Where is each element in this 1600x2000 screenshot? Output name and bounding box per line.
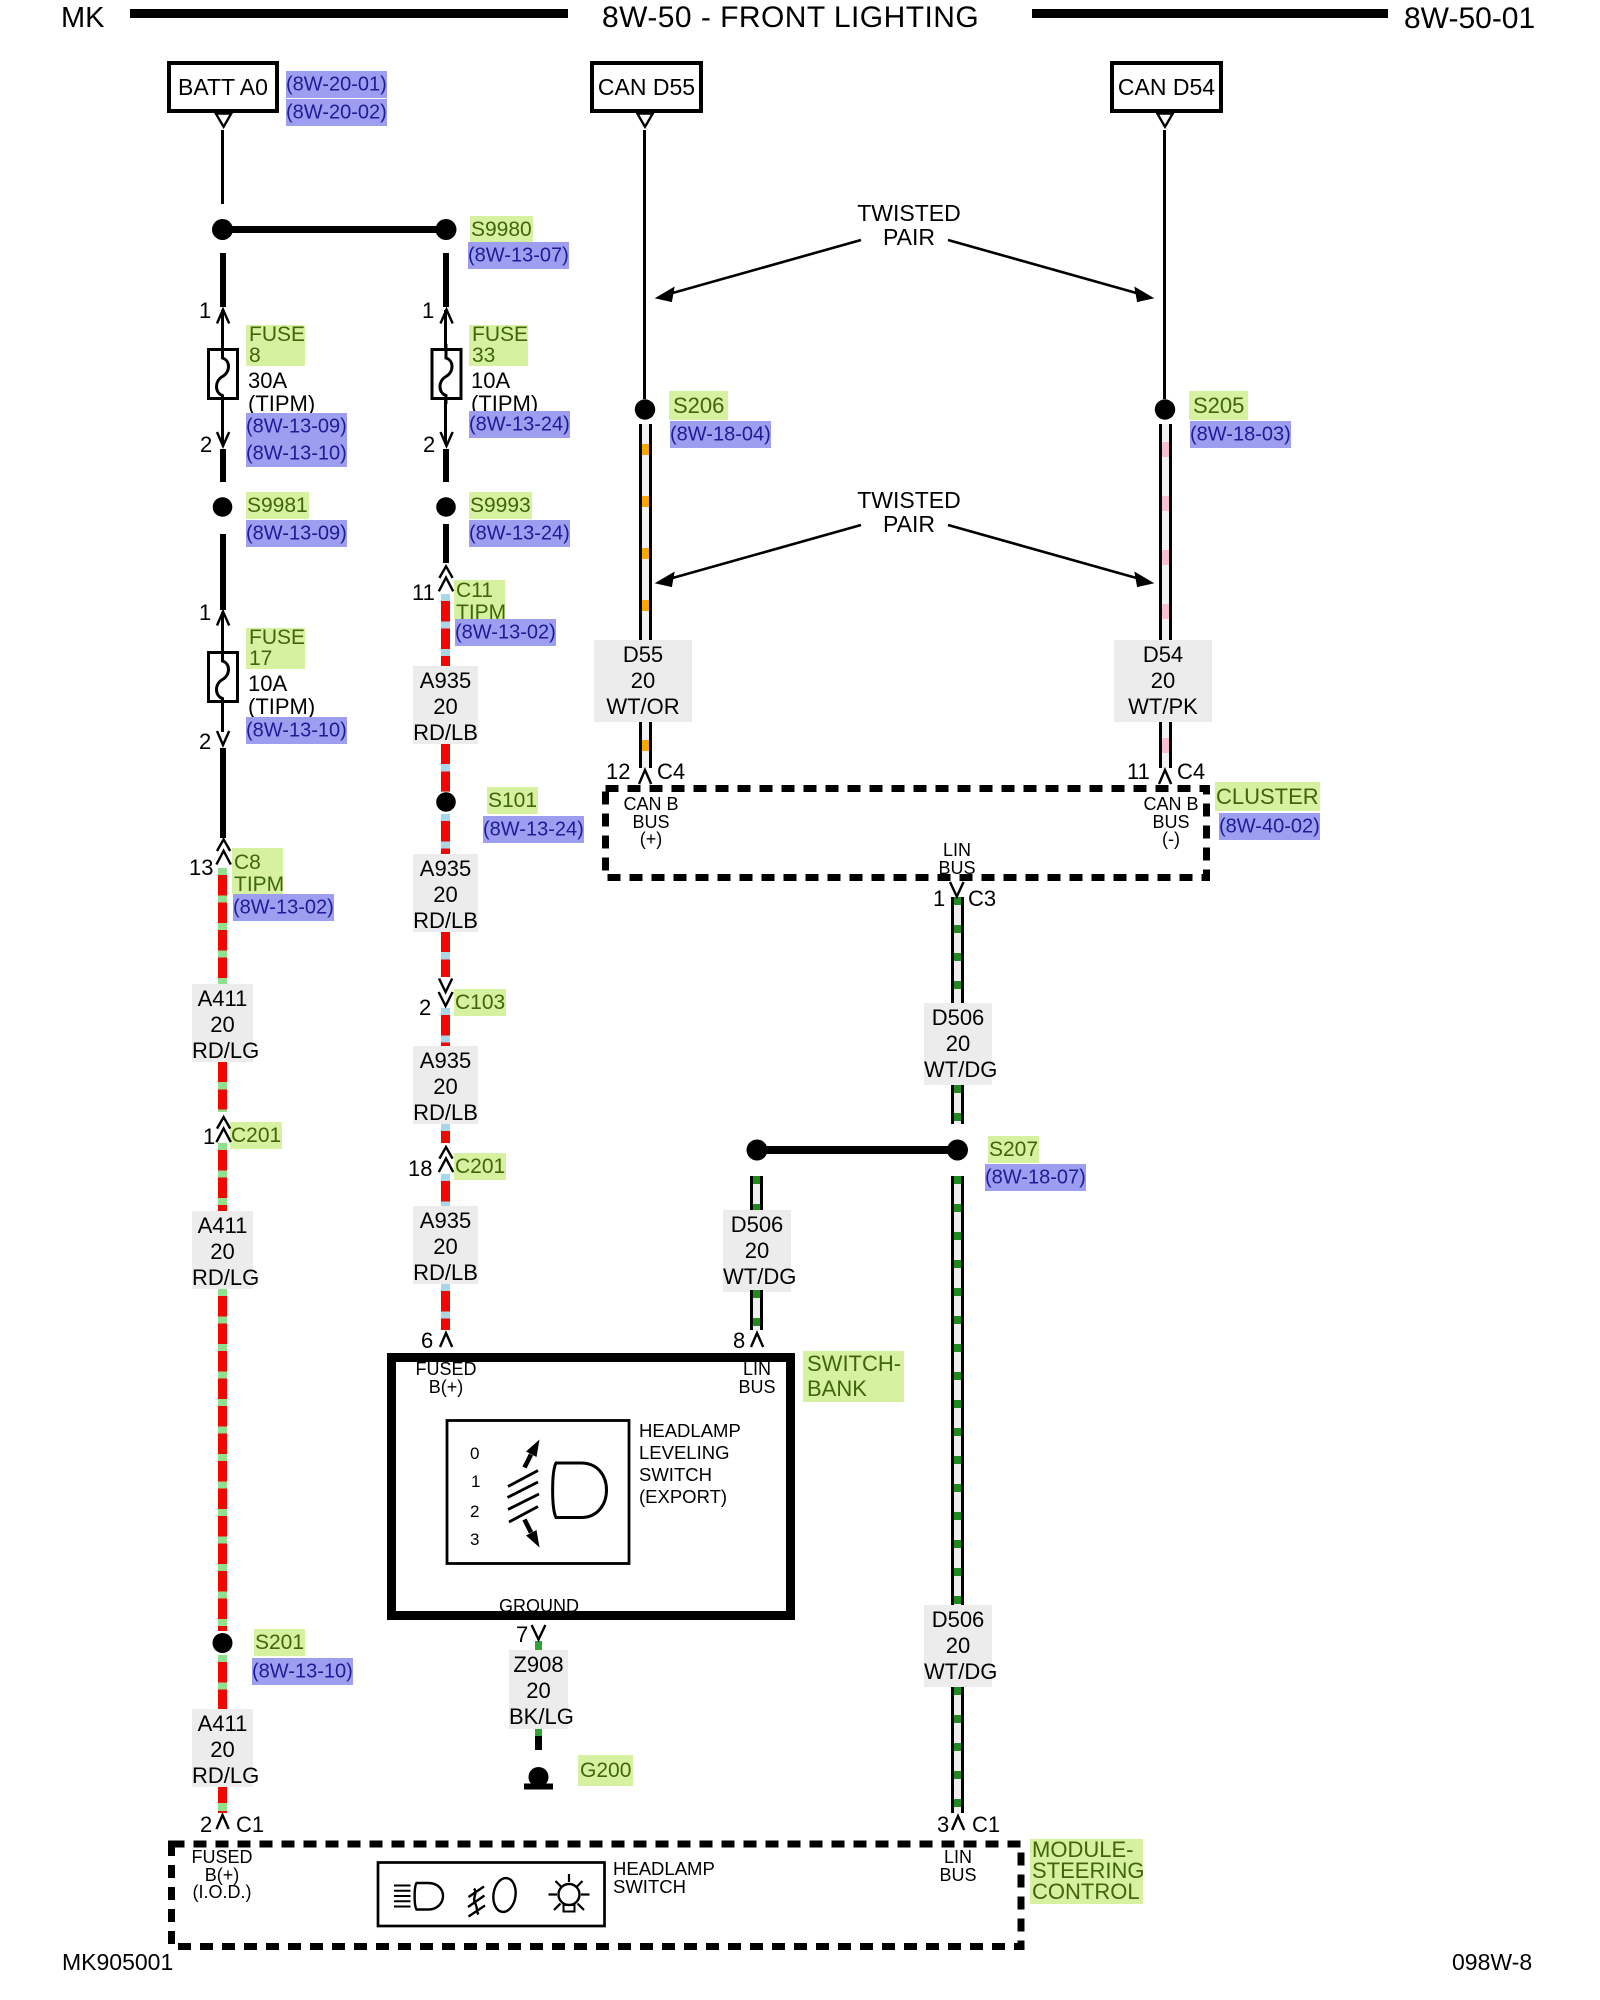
label C103 bbox=[454, 991, 506, 1015]
wire batt to splice S9980 bbox=[221, 130, 224, 204]
header page number bbox=[1404, 1, 1535, 36]
wire A411 seg6 bbox=[218, 1787, 227, 1813]
page ref (8W-18-07) bbox=[985, 1164, 1086, 1192]
splice dot S207 left bbox=[747, 1140, 768, 1161]
page ref (8W-13-09)(8W-13-10) bbox=[246, 413, 347, 468]
pin 1 fuse 17 bbox=[199, 600, 211, 626]
splice dot S201 bbox=[213, 1633, 233, 1653]
pin chevron 7 ground down bbox=[532, 1625, 546, 1640]
wire lin right long bbox=[951, 1176, 964, 1605]
label FUSED B(+) (I.O.D.) bbox=[187, 1849, 257, 1902]
splice bar S9980 bbox=[222, 226, 446, 233]
icon low beam lamp bbox=[415, 1883, 443, 1910]
page ref (8W-13-24) s101 bbox=[483, 816, 584, 844]
headlamp switch dashed box bbox=[172, 1844, 1022, 1947]
leveling up arrow bbox=[525, 1455, 532, 1468]
splice dot S101 bbox=[436, 792, 456, 812]
label LIN BUS switchbank bbox=[722, 1361, 792, 1396]
fuse 17 element bbox=[217, 647, 229, 707]
pin 6 switch bank bbox=[421, 1328, 433, 1354]
footer drawing number bbox=[1452, 1949, 1532, 1976]
icon fog squiggle bbox=[474, 1889, 479, 1915]
label S9980 bbox=[470, 218, 533, 242]
wire A935 seg7 bbox=[441, 1174, 450, 1206]
switch bank box bbox=[392, 1358, 791, 1616]
fuse 8 element bbox=[217, 344, 229, 404]
wire A411 seg3 bbox=[218, 1143, 227, 1211]
wire label A411 20 RD/LG third bbox=[192, 1709, 253, 1787]
wire label A935 20 RD/LB second bbox=[413, 854, 478, 932]
pin 13 connector C8 bbox=[189, 855, 213, 881]
label S207 bbox=[988, 1138, 1039, 1162]
label C3 bbox=[968, 886, 996, 912]
pin 2 connector C103 bbox=[419, 995, 431, 1021]
twisted pair arrow upper right bbox=[948, 240, 1140, 294]
connector box CAN D54 bbox=[1110, 61, 1223, 113]
label S101 bbox=[487, 789, 538, 813]
label C1 right bbox=[972, 1812, 1000, 1838]
label HEADLAMP SWITCH bbox=[613, 1860, 715, 1896]
twisted pair label upper bbox=[856, 201, 962, 249]
wire fuse33 to pin 2 bbox=[444, 398, 447, 444]
twisted pair arrow lower left bbox=[669, 525, 861, 579]
wire z908 upper cap bbox=[535, 1641, 542, 1650]
wire pin2 to splice S9981 bbox=[220, 449, 226, 482]
splice dot S205 bbox=[1155, 399, 1175, 419]
pin 12 connector C4 bbox=[606, 759, 630, 785]
fuse 8 body bbox=[209, 350, 238, 399]
pin 1 connector C3 bbox=[933, 886, 945, 912]
connector triangle can d54 bbox=[1157, 114, 1173, 127]
label C4 left bbox=[657, 759, 685, 785]
label S201 bbox=[254, 1631, 305, 1655]
label C11 TIPM bbox=[454, 580, 505, 620]
label C201 col1 bbox=[230, 1124, 282, 1148]
leveling down arrow bbox=[525, 1520, 532, 1533]
splice dot S9981 bbox=[213, 497, 233, 517]
wire A411 seg5 bbox=[218, 1655, 227, 1709]
pin 18 connector C201 bbox=[408, 1156, 432, 1182]
twisted pair arrowhead upper left bbox=[656, 288, 674, 302]
page ref (8W-13-09) bbox=[246, 520, 347, 548]
pin chevron 18 C201 double bbox=[439, 1147, 453, 1172]
pin chevron 3 C1 bbox=[952, 1816, 964, 1830]
leveling up arrowhead bbox=[526, 1440, 540, 1458]
wire A935 seg3 bbox=[441, 814, 450, 854]
wire pin2 fuse17 down bbox=[220, 748, 226, 838]
wire through fuse 8 bbox=[221, 310, 224, 350]
page ref (8W-13-02) c8 bbox=[233, 895, 334, 923]
wire lin bus upper bbox=[951, 897, 964, 1003]
splice bar S207 bbox=[756, 1146, 958, 1154]
label S206 bbox=[669, 393, 728, 419]
header rule left bbox=[130, 9, 568, 18]
splice dot S9993 bbox=[436, 497, 456, 517]
leveling beam lines bbox=[508, 1471, 540, 1523]
leveling down arrowhead bbox=[526, 1530, 540, 1548]
pin 2 fuse 17 bbox=[199, 729, 211, 755]
header title center bbox=[602, 0, 979, 35]
page ref (8W-13-02) c11 bbox=[455, 619, 556, 647]
page ref (8W-20-01)(8W-20-02) bbox=[286, 72, 387, 127]
wire twisted pair WT/OR upper bbox=[639, 424, 652, 640]
pin chevron 6 switchbank bbox=[440, 1333, 452, 1347]
connector box CAN D55 bbox=[590, 61, 703, 113]
ground symbol G200 dot bbox=[529, 1767, 549, 1787]
label S205 bbox=[1189, 393, 1248, 419]
icon park lamp circle bbox=[559, 1884, 580, 1905]
pin chevron 2 fuse8 bbox=[217, 432, 229, 446]
fuse 17 body bbox=[209, 653, 238, 702]
icon fog lamp bbox=[491, 1877, 518, 1914]
twisted pair arrowhead upper right bbox=[1135, 288, 1153, 302]
wire twisted pair WT/PK lower bbox=[1159, 722, 1172, 768]
pin chevron 2 C103 double down bbox=[439, 979, 453, 1007]
pin 3 connector C1 bbox=[937, 1812, 949, 1838]
label CAN B BUS (+) bbox=[615, 796, 687, 849]
svg-text:1: 1 bbox=[471, 1472, 480, 1491]
label C8 TIPM bbox=[232, 848, 283, 894]
page ref (8W-13-07) bbox=[468, 242, 569, 270]
wire lin branch to switchbank bbox=[750, 1176, 763, 1210]
page ref (8W-13-10) bbox=[246, 717, 347, 745]
leveling switch inner box bbox=[447, 1421, 629, 1564]
splice dot S9980 left bbox=[212, 219, 233, 240]
pin chevron 2 fuse17 bbox=[217, 731, 229, 745]
icon park lamp base bbox=[564, 1905, 575, 1912]
pin 2 fuse 33 bbox=[423, 432, 435, 458]
cluster dashed box bbox=[606, 789, 1207, 878]
page ref (8W-13-24) s9993 bbox=[469, 520, 570, 548]
label G200 bbox=[578, 1759, 633, 1783]
wire lin branch lower bbox=[750, 1290, 763, 1330]
wire through fuse 17 bbox=[221, 612, 224, 732]
label LIN BUS module bbox=[923, 1849, 993, 1884]
wire label D506 20 WT/DG first bbox=[924, 1003, 992, 1085]
wire can d55 down bbox=[643, 130, 646, 399]
pin chevron 8 switchbank bbox=[751, 1333, 763, 1347]
wire label A411 20 RD/LG bbox=[192, 984, 253, 1062]
wire label Z908 20 BK/LG bbox=[509, 1650, 568, 1729]
label CAN B BUS (-) bbox=[1135, 796, 1207, 849]
label LIN BUS cluster bbox=[922, 842, 992, 877]
wire A935 seg8 bbox=[441, 1284, 450, 1330]
label 10A (TIPM) fuse33 bbox=[471, 369, 538, 415]
label FUSE 17 bbox=[246, 628, 305, 669]
footer sheet code bbox=[62, 1949, 173, 1976]
wire lin to module bbox=[951, 1687, 964, 1813]
page ref (8W-18-04) bbox=[670, 421, 771, 449]
wire label D55 20 WT/OR bbox=[594, 640, 692, 722]
label SWITCH-BANK bbox=[803, 1351, 904, 1402]
pin 7 ground bbox=[516, 1622, 528, 1648]
label HEADLAMP LEVELING SWITCH (EXPORT) bbox=[639, 1420, 741, 1508]
twisted pair arrow lower right bbox=[948, 525, 1140, 579]
label C4 right bbox=[1177, 759, 1205, 785]
splice dot S207 right bbox=[947, 1140, 968, 1161]
pin 1 fuse 8 bbox=[199, 298, 211, 324]
wire A411 seg4 long bbox=[218, 1289, 227, 1631]
page ref (8W-13-24) fuse33 bbox=[469, 411, 570, 439]
pin 2 fuse 8 bbox=[200, 432, 212, 458]
icon park lamp rays bbox=[549, 1874, 590, 1910]
wire A935 seg5 bbox=[441, 1008, 450, 1046]
header title MK bbox=[61, 1, 105, 35]
wire A935 seg2 bbox=[441, 744, 450, 792]
wire twisted pair WT/OR lower bbox=[639, 722, 652, 768]
label 10A (TIPM) fuse17 bbox=[248, 672, 315, 718]
label S9993 bbox=[469, 494, 532, 518]
wire A411 seg2 bbox=[218, 1062, 227, 1112]
fuse 33 body bbox=[432, 350, 461, 399]
wire through fuse 33 bbox=[444, 310, 447, 350]
wire twisted pair WT/PK upper bbox=[1159, 424, 1172, 640]
label MODULE-STEERING CONTROL bbox=[1030, 1839, 1143, 1904]
wire label A935 20 RD/LB third bbox=[413, 1046, 478, 1124]
pin 11 connector C11 bbox=[412, 580, 435, 606]
pin chevron 12 C4 bbox=[639, 770, 651, 784]
ground symbol G200 bar bbox=[524, 1784, 553, 1790]
wire label D506 20 WT/DG third bbox=[924, 1605, 992, 1687]
page ref (8W-40-02) bbox=[1219, 814, 1320, 842]
page ref (8W-13-10) s201 bbox=[252, 1658, 353, 1686]
wire label A935 20 RD/LB fourth bbox=[413, 1206, 478, 1284]
label C1 left bbox=[236, 1812, 264, 1838]
label C201 col2 bbox=[454, 1155, 506, 1179]
twisted pair arrowhead lower left bbox=[656, 573, 674, 587]
wire z908 lower bbox=[535, 1729, 542, 1750]
label GROUND bbox=[498, 1598, 580, 1616]
wire A935 seg4 bbox=[441, 932, 450, 977]
header rule right bbox=[1032, 9, 1388, 18]
label CLUSTER bbox=[1215, 784, 1320, 810]
battery feed box BATT A0 bbox=[167, 61, 279, 113]
splice dot S206 bbox=[635, 399, 655, 419]
pin chevron 11 C4 bbox=[1159, 770, 1171, 784]
wire label D506 20 WT/DG second bbox=[723, 1210, 791, 1292]
twisted pair label lower bbox=[856, 488, 962, 536]
pin chevron 1 fuse8 bbox=[217, 310, 229, 324]
pin chevron 2 fuse33 bbox=[441, 432, 453, 446]
svg-text:0: 0 bbox=[470, 1444, 479, 1463]
wire col2 upper thick bbox=[443, 253, 449, 307]
wire S9993 to C11 bbox=[443, 524, 449, 563]
connector triangle batt a0 bbox=[216, 114, 232, 127]
connector triangle can d55 bbox=[637, 114, 653, 127]
pin 8 switch bank bbox=[733, 1328, 745, 1354]
label FUSE 8 bbox=[246, 325, 305, 366]
pin 2 connector C1 bbox=[200, 1812, 212, 1838]
svg-text:3: 3 bbox=[470, 1530, 479, 1549]
fuse 33 element bbox=[440, 344, 452, 404]
icon fog beams bbox=[468, 1887, 485, 1917]
wire lin bus to S207 bbox=[951, 1085, 964, 1124]
wire fused b+ col1 upper bbox=[220, 253, 226, 307]
pin 1 fuse 33 bbox=[422, 298, 434, 324]
leveling headlamp shape bbox=[553, 1463, 607, 1518]
wire can d54 down bbox=[1163, 130, 1166, 399]
label FUSED B(+) switch bbox=[410, 1361, 482, 1396]
wire S9981 to fuse 17 bbox=[220, 534, 226, 610]
label 30A (TIPM) bbox=[248, 369, 315, 415]
wire fuse 8 to pin 2 bbox=[221, 398, 224, 444]
pin 1 connector C201 col1 bbox=[203, 1124, 215, 1150]
svg-text:2: 2 bbox=[470, 1502, 479, 1521]
pin chevron 2 C1 bbox=[217, 1815, 229, 1829]
wire A935 seg6 bbox=[441, 1124, 450, 1143]
icon low beam lines bbox=[394, 1886, 411, 1907]
pin chevron 1 C201 double bbox=[216, 1117, 230, 1142]
pin chevron 11 C11 double bbox=[439, 566, 453, 591]
wire A935 rd/lb seg1 bbox=[441, 594, 450, 666]
pin chevron 1 fuse33 bbox=[441, 310, 453, 324]
label S9981 bbox=[246, 494, 309, 518]
pin chevron 1 C3 down bbox=[950, 882, 964, 897]
splice dot S9980 right bbox=[436, 219, 457, 240]
wire label D54 20 WT/PK bbox=[1114, 640, 1212, 722]
wire A411 rd/lg seg1 bbox=[218, 868, 227, 984]
pin 11 connector C4 right bbox=[1127, 759, 1150, 785]
label FUSE 33 bbox=[469, 325, 528, 366]
wire pin2 to splice S9993 bbox=[443, 449, 449, 482]
twisted pair arrow upper left bbox=[669, 240, 861, 294]
page ref (8W-18-03) bbox=[1190, 421, 1291, 449]
twisted pair arrowhead lower right bbox=[1135, 573, 1153, 587]
pin chevron 1 fuse17 bbox=[217, 612, 229, 626]
pin chevron 13 C8 double bbox=[216, 839, 230, 864]
headlamp switch icon box bbox=[378, 1863, 605, 1927]
wire label A411 20 RD/LG second bbox=[192, 1211, 253, 1289]
wire label A935 20 RD/LB bbox=[413, 666, 478, 744]
